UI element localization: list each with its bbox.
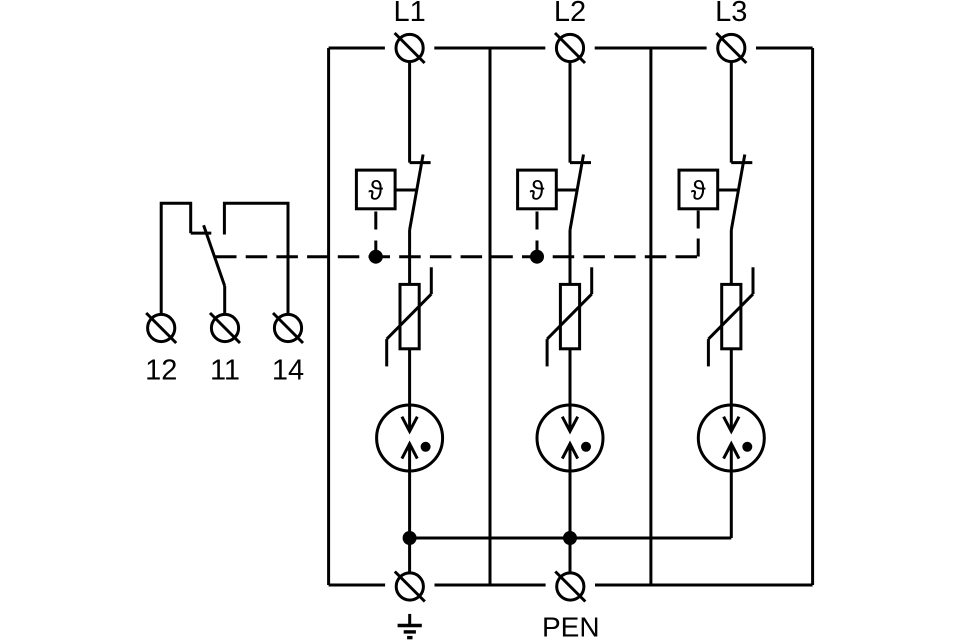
svg-text:ϑ: ϑ (691, 176, 706, 206)
wire L2 spark gap to bus (569, 444, 572, 538)
remote contact wire 11 (223, 286, 226, 315)
disconnect switch arm L3 (731, 155, 745, 231)
thermal element box L2 (518, 170, 557, 209)
terminal L2 (556, 34, 583, 61)
dashed trip link L1 (374, 212, 377, 251)
wire L2 bus to PEN terminal (569, 538, 572, 573)
enclosure bottom wire segment 3 (595, 584, 813, 587)
remote contact switch arm (204, 225, 225, 286)
remote contact wire 14 (224, 203, 288, 315)
contact seat L1 (410, 161, 431, 164)
wire L1 spark gap to bus (408, 444, 411, 538)
ground (398, 614, 422, 638)
wire L1 to varistor (408, 230, 411, 284)
wire L3 drop (730, 62, 733, 163)
terminal L3 (718, 34, 745, 61)
thermal element box L3 (679, 170, 718, 209)
wire L3 varistor to spark gap (730, 349, 733, 432)
junction dot L2 bus (563, 531, 577, 545)
enclosure top wire segment 3 (595, 47, 707, 50)
wire L2 drop (569, 62, 572, 163)
enclosure top wire segment 4 (756, 47, 813, 50)
ground terminal (396, 573, 423, 600)
disconnect switch arm L1 (410, 155, 424, 231)
thermal link L1 (395, 189, 418, 192)
spark gap trigger dot L1 (421, 442, 431, 452)
wire L1 bus to ground terminal (408, 538, 411, 573)
svg-text:L3: L3 (715, 0, 747, 28)
wire L2 to varistor (569, 230, 572, 284)
varistor L2 (560, 284, 579, 348)
svg-text:ϑ: ϑ (368, 176, 383, 206)
thermal link L3 (718, 189, 740, 192)
enclosure right edge (811, 48, 814, 585)
enclosure bottom wire segment 2 (435, 584, 546, 587)
svg-text:12: 12 (145, 355, 177, 387)
disconnect switch arm L2 (570, 155, 584, 231)
terminal 14 (274, 314, 301, 341)
junction dot L2 trip (530, 250, 544, 264)
svg-text:L2: L2 (554, 0, 586, 28)
thermal element box L1 (356, 170, 395, 209)
remote contact wire 12 (161, 203, 191, 315)
trip signal dashed line (215, 255, 698, 258)
junction dot L1 bus (403, 531, 417, 545)
varistor L3 (722, 284, 741, 348)
spark gap L3 (698, 405, 764, 471)
terminal 12 (148, 314, 175, 341)
svg-text:11: 11 (210, 355, 240, 387)
svg-text:PEN: PEN (542, 612, 600, 640)
dashed trip link L2 (536, 212, 539, 251)
svg-text:ϑ: ϑ (530, 176, 545, 206)
enclosure top wire segment 1 (329, 47, 385, 50)
bottom bus wire (410, 537, 732, 540)
wire L1 varistor to spark gap (408, 349, 411, 432)
junction dot L1 trip (369, 250, 383, 264)
wire L3 spark gap to bus (730, 444, 733, 538)
spark gap trigger dot L3 (742, 442, 752, 452)
spark gap L1 (377, 405, 443, 471)
thermal link L2 (556, 189, 578, 192)
contact seat L2 (570, 161, 591, 164)
remote contact seat 12 (191, 232, 212, 235)
enclosure top wire segment 2 (434, 47, 545, 50)
wire L2 varistor to spark gap (569, 349, 572, 432)
wire L3 to varistor (730, 230, 733, 284)
dashed trip link L3 (697, 211, 700, 257)
enclosure left edge (327, 48, 330, 585)
enclosure divider 1 (489, 48, 492, 585)
varistor L1 (400, 284, 419, 348)
terminal PEN (557, 573, 584, 600)
enclosure divider 2 (649, 48, 652, 585)
svg-text:L1: L1 (393, 0, 425, 28)
enclosure bottom wire segment 1 (329, 584, 386, 587)
svg-text:14: 14 (272, 355, 304, 387)
terminal L1 (396, 34, 423, 61)
spark gap trigger dot L2 (581, 442, 591, 452)
wire L1 drop (408, 62, 411, 163)
contact seat L3 (731, 161, 752, 164)
spark gap L2 (537, 405, 603, 471)
terminal 11 (211, 314, 238, 341)
